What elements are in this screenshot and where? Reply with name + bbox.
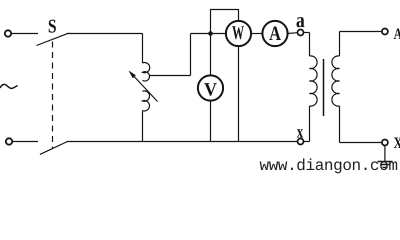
svg-text:x: x xyxy=(297,121,303,141)
svg-text:X: X xyxy=(394,135,400,152)
svg-text:a: a xyxy=(296,8,305,32)
svg-text:A: A xyxy=(394,26,400,43)
svg-text:W: W xyxy=(232,23,244,44)
svg-text:S: S xyxy=(48,17,57,38)
svg-text:www.diangon.com: www.diangon.com xyxy=(260,157,398,175)
svg-text:A: A xyxy=(269,23,281,45)
svg-text:V: V xyxy=(204,79,217,100)
